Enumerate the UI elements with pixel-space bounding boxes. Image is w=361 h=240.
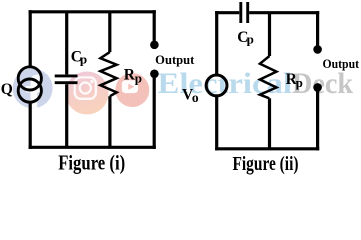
svg-text:p: p <box>296 75 303 90</box>
svg-text:p: p <box>135 71 142 86</box>
svg-text:Figure (i): Figure (i) <box>58 152 125 175</box>
svg-text:o: o <box>192 90 199 105</box>
svg-text:p: p <box>247 32 254 47</box>
svg-text:p: p <box>80 51 87 66</box>
svg-text:Output: Output <box>323 57 360 71</box>
svg-text:Q: Q <box>1 81 13 98</box>
svg-text:Figure (ii): Figure (ii) <box>233 153 299 175</box>
svg-text:Output: Output <box>155 53 195 67</box>
